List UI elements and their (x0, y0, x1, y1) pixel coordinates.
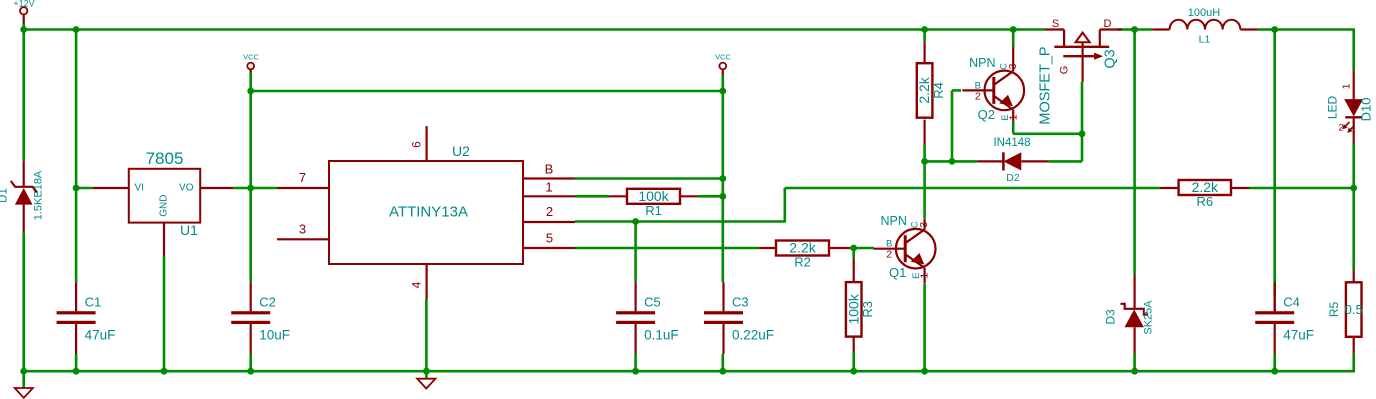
resistor R4 (2.2k) (917, 63, 933, 117)
svg-text:C5: C5 (644, 295, 661, 310)
wire VCC distribution (251, 90, 723, 93)
wire VO to pin7 (233, 187, 277, 190)
svg-text:NPN: NPN (969, 56, 995, 70)
R1 leads (610, 195, 628, 197)
svg-text:3: 3 (1007, 63, 1019, 69)
wire rail to R4 (923, 30, 926, 43)
wire pin 5 to R2 (575, 247, 759, 250)
resistor R3 (100k) (846, 282, 862, 337)
junction gnd / C4 (1271, 368, 1278, 375)
wire R2 to Q1 base (850, 247, 875, 250)
svg-text:SK25A: SK25A (1143, 300, 1155, 335)
wire rail to LED (1352, 30, 1355, 71)
wire pin4 to ground (425, 299, 428, 379)
wire C4 bottom (1273, 354, 1276, 371)
svg-text:100uH: 100uH (1188, 7, 1220, 19)
svg-text:2.2k: 2.2k (789, 240, 816, 256)
svg-text:B: B (545, 162, 554, 177)
junction gnd / Q1 emitter (921, 368, 928, 375)
junction top rail / R4 (921, 26, 928, 33)
svg-text:4: 4 (410, 281, 424, 288)
svg-text:+12V: +12V (13, 0, 34, 9)
svg-text:6: 6 (410, 141, 424, 148)
svg-text:L1: L1 (1199, 34, 1211, 46)
wire Q2 emitter down (1012, 121, 1015, 134)
junction VO / pin7 (247, 185, 254, 192)
svg-text:R2: R2 (794, 255, 811, 270)
junction gnd / C1 (73, 368, 80, 375)
svg-text:VO: VO (179, 182, 194, 193)
svg-text:GND: GND (159, 195, 170, 217)
svg-text:Q3: Q3 (1103, 49, 1119, 68)
svg-text:100k: 100k (638, 188, 669, 204)
svg-text:0.22uF: 0.22uF (732, 328, 774, 343)
capacitor C2 (10uF) (250, 282, 252, 311)
wire middle net to R6 (785, 187, 1160, 190)
wire down to R3 (852, 248, 855, 259)
svg-text:D2: D2 (1006, 172, 1020, 184)
wire drain node down to D3 (1133, 30, 1136, 275)
junction VI / C1 (73, 185, 80, 192)
wire C3 bottom (721, 354, 724, 371)
junction gnd / C2 (247, 368, 254, 375)
svg-text:2: 2 (546, 204, 553, 219)
junction pin B / VCC2 (719, 175, 726, 182)
junction gnd / C5 (632, 368, 639, 375)
wire C5 bottom (634, 354, 637, 371)
capacitor C5 (0.1uF) (634, 282, 636, 311)
wire C1 bottom (75, 354, 78, 371)
junction VCC2 / dist (719, 88, 726, 95)
MCU U2 (ATTINY13A) (329, 161, 523, 264)
wire to Q1 collector (923, 161, 926, 218)
LED D10 (1353, 70, 1355, 99)
junction pin2 / C5 (632, 218, 639, 225)
junction gnd / R3 (850, 368, 857, 375)
LED arrows (1344, 122, 1350, 128)
wire pin2 elbow up (783, 188, 786, 223)
diode D2 (IN4148) (977, 160, 1003, 162)
pin 2 (523, 221, 575, 223)
svg-text:D10: D10 (1359, 98, 1374, 122)
wire pin B (575, 177, 723, 180)
wire VCC1 branch / C2 (249, 72, 252, 283)
junction top rail / D3 (1131, 26, 1138, 33)
svg-text:7805: 7805 (146, 149, 184, 168)
wire left rail upper (22, 23, 25, 161)
svg-text:3: 3 (299, 222, 306, 237)
svg-text:7: 7 (299, 170, 306, 185)
svg-text:D1: D1 (0, 188, 10, 203)
wire Q2 base elbow horizontal (952, 89, 961, 92)
junction top rail / Q2 collector (1010, 26, 1017, 33)
junction top rail / C4 (1271, 26, 1278, 33)
svg-text:1.5KE18A: 1.5KE18A (33, 170, 45, 220)
svg-text:1: 1 (1341, 83, 1353, 89)
svg-text:2: 2 (1338, 123, 1343, 133)
wire R1 to VCC2 (698, 195, 723, 198)
svg-text:3: 3 (918, 222, 930, 228)
wire D3 bottom (1133, 354, 1136, 372)
svg-text:U2: U2 (452, 143, 470, 159)
power symbol VCC (right) (719, 63, 726, 70)
svg-text:2.2k: 2.2k (1192, 179, 1219, 195)
svg-text:2: 2 (886, 249, 892, 261)
wire left rail lower (22, 232, 25, 372)
resistor R1 (100k) (627, 189, 680, 204)
capacitor C4 (47uF) (1274, 282, 1276, 311)
svg-text:LED: LED (1326, 95, 1340, 119)
wire top rail after L1 (1258, 28, 1355, 31)
svg-text:0.5: 0.5 (1345, 302, 1363, 317)
svg-text:IN4148: IN4148 (993, 137, 1030, 149)
junction R4 / Q1 collector (921, 158, 928, 165)
junction R2 / R3 / Q1 base (850, 245, 857, 252)
capacitor C1 (47uF) (75, 282, 77, 311)
junction gate node (1079, 130, 1086, 137)
wire Q2 collector up (1012, 30, 1015, 48)
transistor Q2 (NPN) (985, 71, 1025, 111)
R3 leads (853, 259, 855, 283)
R4 leads (923, 43, 925, 64)
wire R5 bottom (1352, 354, 1355, 373)
wire C5 branch (634, 222, 637, 283)
svg-text:R5: R5 (1327, 302, 1341, 318)
svg-text:1: 1 (1007, 114, 1019, 120)
wire R4 bottom (923, 144, 926, 161)
wire output to C4 (1273, 30, 1276, 296)
wire base net horizontal (925, 160, 978, 163)
pin 5 (523, 247, 575, 249)
wire D2 anode to gate column (1049, 160, 1082, 163)
wire 7805 GND down (163, 256, 166, 371)
svg-text:0.1uF: 0.1uF (644, 328, 679, 343)
diode D3 (SK25A schottky) (1133, 275, 1135, 309)
R2 leads (759, 247, 776, 249)
wire emitter to gate node (1013, 133, 1082, 136)
svg-text:ATTINY13A: ATTINY13A (389, 204, 468, 221)
wire R6 to LED column (1249, 187, 1354, 190)
wire ground stub left (22, 371, 25, 388)
svg-text:S: S (1052, 18, 1059, 30)
junction VCC1 / dist (247, 88, 254, 95)
pin 6 (426, 126, 428, 161)
junction LED / R6 / R5 (1350, 185, 1357, 192)
wire top +12V rail (24, 28, 1045, 31)
C4 top lead (1274, 295, 1276, 311)
wire pin 1 to R1 (575, 195, 610, 198)
svg-text:47uF: 47uF (85, 328, 116, 343)
pin 7 (277, 187, 329, 189)
svg-text:MOSFET_P: MOSFET_P (1038, 46, 1054, 124)
inductor L1 (100uH) (1152, 28, 1169, 30)
svg-text:1: 1 (919, 273, 931, 279)
svg-text:C3: C3 (732, 295, 749, 310)
svg-text:D3: D3 (1104, 309, 1118, 325)
svg-text:47uF: 47uF (1283, 328, 1314, 343)
svg-text:NPN: NPN (880, 214, 906, 228)
wire C1 branch (75, 30, 78, 283)
svg-text:G: G (1059, 66, 1071, 75)
svg-text:C4: C4 (1283, 295, 1300, 310)
wire bottom ground rail (24, 370, 1354, 373)
junction top rail / +12V (20, 26, 27, 33)
resistor R6 (2.2k) (1179, 180, 1231, 195)
svg-text:Q1: Q1 (889, 265, 906, 280)
junction gnd / C3 (719, 368, 726, 375)
svg-text:D: D (1104, 18, 1112, 30)
svg-text:R4: R4 (931, 82, 946, 99)
wire Q1 emitter down (923, 284, 926, 371)
transistor Q3 (MOSFET_P) (1045, 28, 1064, 30)
svg-text:C2: C2 (259, 295, 276, 310)
regulator U1 (7805) (129, 169, 200, 223)
svg-text:VI: VI (135, 182, 144, 193)
svg-text:2: 2 (975, 90, 981, 102)
power flag +12V (20, 7, 27, 14)
svg-text:10uF: 10uF (259, 328, 290, 343)
svg-text:5: 5 (546, 231, 553, 246)
junction top rail / C1 (73, 26, 80, 33)
power symbol VCC (left) (247, 63, 254, 70)
wire R3 bottom (852, 352, 855, 371)
resistor R2 (2.2k) (776, 241, 829, 256)
svg-text:VCC: VCC (715, 52, 731, 61)
wire LED to R5 (1352, 144, 1355, 271)
pin 4 (426, 264, 428, 299)
wire top rail after Q3 drain (1118, 28, 1153, 31)
R5 leads (1353, 270, 1355, 282)
ground (below U2 pin 4) (417, 379, 435, 389)
junction gnd / pin4 (423, 368, 430, 375)
svg-text:U1: U1 (180, 222, 198, 238)
svg-text:100k: 100k (845, 293, 861, 324)
svg-text:C1: C1 (85, 295, 102, 310)
wire Q2 base elbow vertical (951, 90, 954, 161)
pin B (523, 177, 575, 179)
junction Q2 base net (949, 158, 956, 165)
wire pin 2 (575, 220, 785, 223)
wire VCC2 branch / C3 (721, 74, 724, 283)
pin 3 (277, 238, 329, 240)
transistor Q1 (NPN) (896, 229, 936, 269)
wire C2 bottom (249, 354, 252, 371)
junction gnd / D3 (1131, 368, 1138, 375)
pin 1 (523, 195, 575, 197)
svg-text:R1: R1 (645, 203, 662, 218)
resistor R5 (0.5) (1346, 282, 1362, 337)
ground (bottom left) (15, 388, 33, 398)
junction gnd / left rail (20, 368, 27, 375)
svg-text:1: 1 (545, 179, 552, 194)
junction gnd / 7805 (161, 368, 168, 375)
svg-text:R3: R3 (860, 301, 875, 318)
svg-text:Q2: Q2 (978, 107, 995, 122)
wire gate column (1081, 82, 1084, 161)
junction R1 / VCC2 (719, 193, 726, 200)
wire to VI (76, 187, 93, 190)
capacitor C3 (0.22uF) (722, 282, 724, 311)
svg-text:2.2k: 2.2k (916, 76, 932, 103)
svg-text:R6: R6 (1196, 194, 1213, 209)
diode D1 (1.5KE18A TVS) (23, 160, 25, 187)
R6 leads (1159, 187, 1178, 189)
svg-text:VCC: VCC (243, 52, 259, 61)
